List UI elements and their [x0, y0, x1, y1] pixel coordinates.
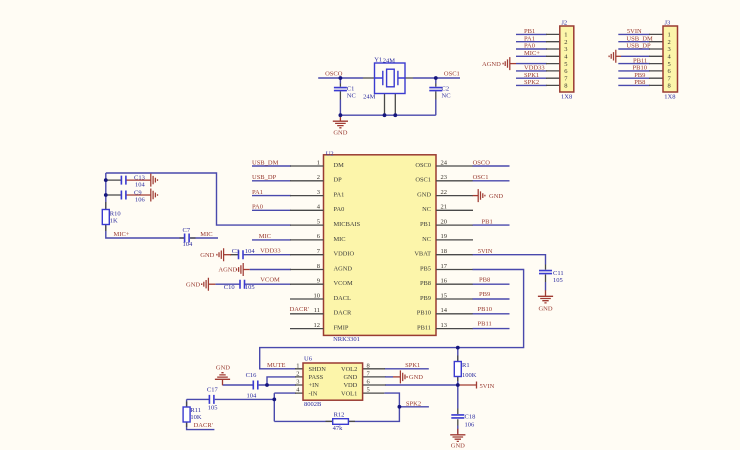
- svg-text:NC: NC: [442, 93, 451, 100]
- svg-text:23: 23: [441, 174, 448, 181]
- svg-text:VDD: VDD: [343, 382, 357, 389]
- svg-text:5: 5: [668, 61, 671, 68]
- svg-text:10K: 10K: [190, 414, 202, 421]
- svg-text:VBAT: VBAT: [414, 251, 431, 258]
- svg-text:PA1: PA1: [252, 189, 263, 196]
- svg-text:SPK1: SPK1: [524, 72, 539, 79]
- svg-text:5VIN: 5VIN: [480, 383, 495, 390]
- svg-text:SPK2: SPK2: [406, 400, 421, 407]
- svg-text:DM: DM: [334, 162, 345, 169]
- svg-text:J2: J2: [561, 19, 567, 26]
- svg-text:104: 104: [183, 241, 194, 248]
- svg-text:1: 1: [296, 362, 299, 369]
- svg-text:PB8: PB8: [479, 276, 490, 283]
- svg-text:OSCO: OSCO: [325, 70, 343, 77]
- svg-text:PA0: PA0: [252, 204, 263, 211]
- svg-text:PB1: PB1: [482, 218, 493, 225]
- svg-text:GND: GND: [200, 252, 214, 259]
- svg-text:14: 14: [441, 307, 448, 314]
- svg-text:1: 1: [317, 159, 320, 166]
- svg-text:AGND: AGND: [482, 61, 501, 68]
- svg-text:22: 22: [441, 189, 448, 196]
- svg-text:PB9: PB9: [420, 295, 431, 302]
- svg-text:PB10: PB10: [417, 310, 431, 317]
- svg-text:OSC0: OSC0: [415, 162, 431, 169]
- svg-text:C10: C10: [224, 284, 235, 291]
- svg-text:6: 6: [317, 233, 321, 240]
- svg-text:2: 2: [668, 39, 671, 46]
- svg-text:2: 2: [317, 174, 320, 181]
- svg-text:DACR': DACR': [290, 306, 309, 313]
- svg-text:PB10: PB10: [633, 65, 647, 72]
- svg-text:PB9: PB9: [634, 72, 645, 79]
- svg-text:NC: NC: [347, 93, 356, 100]
- svg-text:12: 12: [314, 322, 321, 329]
- svg-text:18: 18: [441, 248, 448, 255]
- svg-text:19: 19: [441, 233, 448, 240]
- svg-text:FMIP: FMIP: [334, 325, 349, 332]
- svg-text:PB5: PB5: [420, 265, 431, 272]
- svg-text:GND: GND: [409, 374, 423, 381]
- svg-text:PB1: PB1: [524, 28, 535, 35]
- svg-text:5VIN: 5VIN: [627, 28, 642, 35]
- svg-text:1: 1: [668, 32, 671, 39]
- svg-text:105: 105: [553, 277, 563, 284]
- svg-text:C2: C2: [442, 86, 450, 93]
- svg-text:NC: NC: [422, 206, 431, 213]
- svg-text:24M: 24M: [363, 93, 376, 100]
- svg-text:U6: U6: [304, 356, 313, 363]
- svg-text:VCOM: VCOM: [260, 276, 280, 283]
- svg-text:106: 106: [135, 196, 146, 203]
- svg-text:GND: GND: [451, 443, 465, 450]
- svg-text:MIC+: MIC+: [114, 231, 130, 238]
- svg-text:USB_DM: USB_DM: [626, 35, 653, 42]
- svg-text:24: 24: [441, 159, 448, 166]
- svg-text:NRK3301: NRK3301: [333, 336, 360, 343]
- svg-text:PB8: PB8: [420, 280, 431, 287]
- svg-text:VCOM: VCOM: [334, 280, 353, 287]
- svg-text:5VIN: 5VIN: [478, 248, 493, 255]
- svg-text:2: 2: [564, 39, 567, 46]
- svg-text:VDD33: VDD33: [524, 65, 545, 72]
- svg-text:VDD33: VDD33: [260, 248, 281, 255]
- svg-text:GND: GND: [538, 306, 552, 313]
- svg-text:104: 104: [247, 393, 258, 400]
- svg-text:10: 10: [314, 292, 321, 299]
- svg-text:1X8: 1X8: [664, 94, 675, 101]
- svg-text:105: 105: [208, 405, 218, 412]
- svg-text:100K: 100K: [462, 372, 477, 379]
- svg-text:C16: C16: [246, 372, 258, 379]
- svg-text:5: 5: [367, 387, 370, 394]
- svg-text:11: 11: [314, 307, 320, 314]
- svg-text:1K: 1K: [110, 217, 118, 224]
- svg-text:PB10: PB10: [478, 306, 492, 313]
- svg-text:Y1: Y1: [374, 56, 382, 63]
- svg-text:PA0: PA0: [524, 43, 535, 50]
- svg-text:J3: J3: [665, 19, 671, 26]
- svg-text:MIC+: MIC+: [524, 50, 540, 57]
- svg-text:+IN: +IN: [309, 382, 320, 389]
- svg-text:USB_DP: USB_DP: [626, 43, 651, 50]
- svg-text:C17: C17: [207, 387, 219, 394]
- svg-text:PB9: PB9: [479, 291, 490, 298]
- svg-text:OSCO: OSCO: [473, 159, 491, 166]
- svg-text:DACR: DACR: [334, 310, 352, 317]
- svg-text:GND: GND: [186, 281, 200, 288]
- svg-text:8: 8: [317, 263, 320, 270]
- svg-text:GND: GND: [417, 192, 431, 199]
- svg-text:15: 15: [441, 292, 448, 299]
- svg-text:3: 3: [564, 46, 567, 53]
- svg-text:MICBAIS: MICBAIS: [334, 221, 361, 228]
- svg-text:3: 3: [317, 189, 320, 196]
- svg-text:USB_DM: USB_DM: [252, 159, 279, 166]
- svg-text:OSC1: OSC1: [473, 174, 489, 181]
- svg-text:C7: C7: [183, 227, 191, 234]
- svg-text:DACL: DACL: [334, 295, 351, 302]
- svg-text:VOL2: VOL2: [341, 366, 357, 373]
- svg-text:PA0: PA0: [334, 206, 345, 213]
- svg-text:PASS: PASS: [309, 374, 324, 381]
- svg-text:AGND: AGND: [218, 267, 237, 274]
- svg-text:PB8: PB8: [634, 79, 645, 86]
- svg-text:104: 104: [135, 181, 146, 188]
- svg-text:PA1: PA1: [334, 192, 345, 199]
- svg-text:8002B: 8002B: [304, 401, 322, 408]
- svg-text:16: 16: [441, 278, 448, 285]
- svg-text:8: 8: [564, 83, 567, 90]
- svg-text:C11: C11: [553, 270, 564, 277]
- svg-text:GND: GND: [333, 130, 347, 137]
- svg-text:8: 8: [668, 83, 671, 90]
- svg-text:C18: C18: [465, 414, 476, 421]
- svg-text:20: 20: [441, 218, 448, 225]
- svg-text:PA1: PA1: [524, 35, 535, 42]
- svg-text:2: 2: [296, 370, 299, 377]
- svg-text:SHDN: SHDN: [309, 366, 327, 373]
- svg-text:MIC: MIC: [259, 233, 271, 240]
- svg-text:C3: C3: [232, 248, 240, 255]
- svg-text:5: 5: [564, 61, 567, 68]
- svg-text:GND: GND: [343, 374, 357, 381]
- svg-text:DACR': DACR': [194, 422, 213, 429]
- svg-text:GND: GND: [216, 364, 230, 371]
- svg-text:R1: R1: [462, 362, 470, 369]
- svg-text:47k: 47k: [333, 425, 344, 432]
- svg-text:PB1: PB1: [420, 221, 431, 228]
- svg-text:PB11: PB11: [478, 321, 492, 328]
- svg-text:MUTE: MUTE: [267, 362, 285, 369]
- svg-text:OSC1: OSC1: [444, 70, 460, 77]
- svg-text:104: 104: [245, 248, 256, 255]
- svg-text:8: 8: [367, 362, 370, 369]
- svg-text:MIC: MIC: [200, 231, 212, 238]
- svg-text:USB_DP: USB_DP: [252, 174, 277, 181]
- svg-text:SPK2: SPK2: [524, 79, 539, 86]
- svg-text:R12: R12: [334, 412, 345, 419]
- svg-text:1X8: 1X8: [561, 94, 572, 101]
- svg-text:4: 4: [317, 204, 321, 211]
- svg-text:OSC1: OSC1: [415, 177, 431, 184]
- svg-text:9: 9: [317, 278, 320, 285]
- svg-text:PB11: PB11: [417, 325, 431, 332]
- svg-text:105: 105: [245, 284, 255, 291]
- svg-text:106: 106: [465, 422, 476, 429]
- svg-text:C1: C1: [347, 86, 355, 93]
- svg-text:13: 13: [441, 322, 448, 329]
- svg-text:-IN: -IN: [309, 390, 318, 397]
- svg-text:NC: NC: [422, 236, 431, 243]
- svg-text:U2: U2: [326, 150, 334, 157]
- svg-text:1: 1: [564, 32, 567, 39]
- svg-text:17: 17: [441, 263, 448, 270]
- svg-text:24M: 24M: [383, 58, 396, 65]
- svg-text:AGND: AGND: [334, 265, 353, 272]
- svg-text:SPK1: SPK1: [405, 362, 420, 369]
- svg-text:7: 7: [317, 248, 321, 255]
- svg-text:5: 5: [317, 218, 320, 225]
- svg-text:VOL1: VOL1: [341, 390, 357, 397]
- svg-text:3: 3: [668, 46, 671, 53]
- svg-text:VDDIO: VDDIO: [334, 251, 355, 258]
- svg-text:21: 21: [441, 204, 448, 211]
- svg-text:GND: GND: [489, 193, 503, 200]
- svg-text:PB11: PB11: [633, 57, 647, 64]
- svg-text:3: 3: [296, 379, 299, 386]
- svg-text:DP: DP: [334, 177, 343, 184]
- svg-text:MIC: MIC: [334, 236, 346, 243]
